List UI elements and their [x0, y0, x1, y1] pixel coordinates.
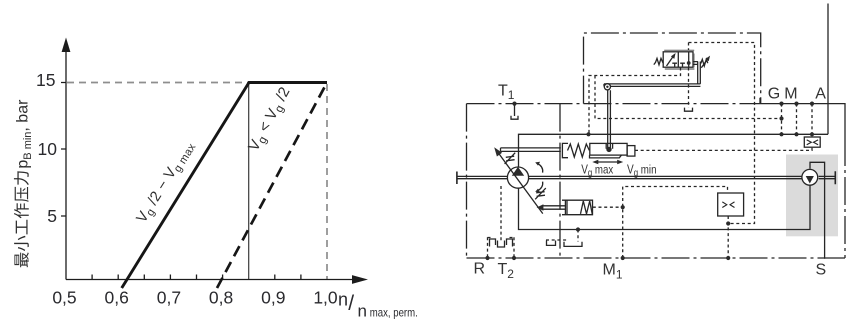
counter piston cylinder — [562, 200, 593, 215]
port labels — [474, 83, 827, 282]
port M line — [796, 104, 798, 135]
solid curve Vg/2 - Vg max — [122, 83, 327, 289]
control option dotted box — [689, 43, 755, 224]
pump housing boundary (chain line) — [467, 103, 759, 105]
svg-text:n: n — [358, 302, 367, 321]
boost pump — [802, 169, 818, 185]
dashed curve Vg < Vg/2 — [217, 83, 327, 289]
y-axis label: min working pressure — [14, 99, 34, 267]
orifice to tank line — [727, 216, 729, 258]
svg-text:M: M — [784, 86, 797, 103]
plugged port T1 — [514, 104, 516, 116]
boost pump outlet loop to S — [810, 162, 825, 258]
lever pivot marks — [505, 153, 516, 164]
svg-text:Vg min: Vg min — [627, 161, 657, 179]
drive shaft — [457, 176, 835, 178]
swashplate arrow — [498, 152, 543, 214]
M1 sensing line — [623, 187, 728, 259]
case flushing links — [546, 230, 578, 242]
case drain labyrinth — [490, 239, 513, 247]
valve left cell: variable throttle — [667, 55, 675, 66]
svg-text:G: G — [768, 86, 780, 103]
junction dots — [485, 102, 814, 261]
pressure line from pump outlet — [519, 134, 829, 167]
pivot — [604, 84, 610, 90]
section divider boundary — [559, 104, 561, 258]
feedback lever — [604, 84, 700, 87]
servo piston — [590, 143, 627, 155]
svg-text:S: S — [816, 262, 827, 279]
valve pilot supply lines — [589, 68, 681, 135]
svg-text:/: / — [348, 292, 354, 315]
link lower bar to counter piston — [543, 206, 566, 209]
flushing orifice valve — [718, 193, 744, 216]
case drain line — [500, 186, 502, 241]
DA control valve — [664, 49, 694, 51]
servo spring seat — [562, 143, 568, 157]
feedback link upper bar — [501, 148, 561, 152]
plugged drain under valve — [685, 108, 693, 112]
svg-text:R: R — [474, 261, 486, 278]
valve right spring (adjustable) — [693, 62, 698, 65]
svg-text:0,5: 0,5 — [52, 288, 76, 308]
port G line — [781, 104, 783, 135]
displacement labels — [581, 161, 656, 179]
suction / boost feed line — [519, 185, 811, 229]
port A work line — [827, 4, 829, 135]
valve left spring — [654, 58, 663, 64]
svg-text:0,8: 0,8 — [209, 288, 233, 308]
control module boundary (chain box) — [584, 33, 761, 104]
valve drain to plugged port — [688, 43, 690, 108]
port A pilot line — [811, 104, 813, 138]
svg-text:max, perm.: max, perm. — [370, 306, 418, 320]
svg-text:Vg max: Vg max — [581, 161, 614, 179]
svg-text:0,9: 0,9 — [261, 288, 285, 308]
servo spring — [568, 144, 590, 157]
svg-text:0,6: 0,6 — [105, 288, 129, 308]
chart: minimum working pressure vs speed — [61, 51, 352, 280]
small orifice at A — [804, 137, 820, 147]
valve right cell — [680, 63, 685, 67]
svg-text:A: A — [815, 86, 826, 103]
feedback rod — [608, 90, 611, 149]
svg-text:1,0: 1,0 — [313, 288, 338, 308]
servo pilot line to orifice — [635, 147, 812, 150]
stroke range arrow — [595, 161, 622, 163]
variable displacement pump — [507, 167, 528, 188]
svg-text:n: n — [338, 290, 348, 310]
svg-text:5: 5 — [47, 206, 57, 226]
svg-text:0,7: 0,7 — [157, 288, 181, 308]
boost pump gray block — [786, 155, 838, 237]
internal tank symbols — [547, 241, 556, 246]
counter piston pilot — [593, 206, 623, 208]
svg-text:10: 10 — [38, 139, 58, 159]
swivel direction arcs — [538, 163, 543, 172]
svg-text:15: 15 — [36, 70, 55, 90]
